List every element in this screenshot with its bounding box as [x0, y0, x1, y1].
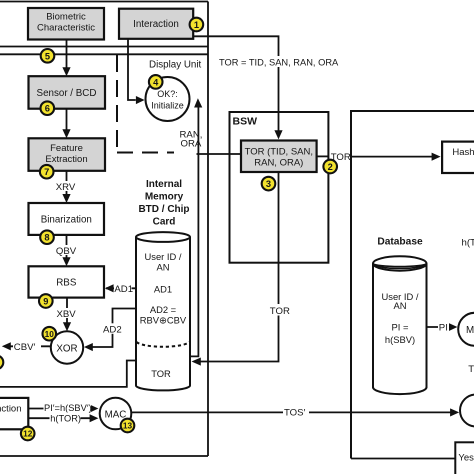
wire: memory cylinder output to left edge (to hash function) — [0, 361, 136, 387]
svg-text:4: 4 — [153, 77, 159, 87]
badge 2 — [323, 160, 337, 174]
wire: Interaction to BSW TOR box — [193, 36, 278, 131]
svg-text:Internal: Internal — [146, 179, 182, 190]
label TOR on vertical wire — [269, 304, 293, 316]
box Binarization — [29, 203, 105, 235]
svg-text:Card: Card — [153, 217, 176, 228]
box TOR (TID, SAN, RAN, ORA) inside BSW — [241, 141, 317, 173]
svg-text:2: 2 — [328, 162, 333, 172]
svg-text:Extraction: Extraction — [45, 154, 87, 165]
box RBS — [29, 266, 105, 297]
wire: outer client container right edge — [207, 2, 209, 457]
svg-text:PI′=h(SBV′): PI′=h(SBV′) — [44, 403, 92, 413]
wire: dashed divider inside memory cylinder — [137, 342, 190, 347]
wire: database lid second arc — [373, 264, 427, 267]
wire: PI'=h(SBV') into MAC — [28, 408, 90, 410]
svg-text:h(SBV): h(SBV) — [385, 334, 415, 345]
badge 9 — [39, 294, 53, 308]
wire: RAN ORA line from BSW up into OK circle — [197, 107, 199, 154]
wire: outer client container bottom edge — [0, 455, 208, 457]
svg-text:M: M — [466, 325, 474, 336]
box Interaction — [119, 9, 193, 39]
svg-text:MAC: MAC — [105, 409, 127, 420]
svg-text:Display Unit: Display Unit — [149, 59, 202, 70]
badge 5 — [41, 49, 55, 63]
node OK?: Initialize circle — [146, 77, 190, 121]
svg-text:RBS: RBS — [56, 277, 77, 288]
svg-text:Biometric: Biometric — [46, 12, 86, 23]
label TOR = TID, SAN, RAN, ORA — [272, 56, 285, 67]
node Display Unit dashed box — [116, 55, 118, 153]
svg-text:AN: AN — [393, 300, 406, 311]
wire: PI from database to M circle — [427, 326, 450, 328]
node comparison circle (cut off at right edge) — [460, 395, 474, 427]
svg-text:AD2 =: AD2 = — [150, 304, 177, 315]
wire: Biometric Characteristic down to Sensor/BCD — [66, 40, 68, 69]
wire: XOR output CBV' to the left edge — [10, 345, 51, 347]
badge 4 — [149, 75, 163, 89]
box Sensor / BCD — [29, 76, 106, 109]
svg-text:User ID /: User ID / — [145, 251, 182, 262]
svg-text:TOR: TOR — [270, 306, 290, 317]
svg-text:QBV: QBV — [56, 246, 77, 257]
box hash function at bottom left (cut off) — [0, 398, 28, 429]
wire: TSP edge to Hash box with arrow — [351, 156, 432, 158]
svg-text:BTD / Chip: BTD / Chip — [138, 204, 189, 215]
svg-text:13: 13 — [123, 421, 133, 431]
svg-text:CBV′: CBV′ — [14, 342, 36, 353]
wire: top border line of outer client container — [0, 1, 208, 3]
badge 7 — [40, 165, 54, 179]
svg-text:7: 7 — [44, 167, 49, 177]
svg-text:10: 10 — [45, 329, 55, 339]
node MAC circle — [100, 398, 132, 430]
badge 12 — [21, 427, 35, 441]
wire: horizontal from TOR box to RAN/ORA junction — [197, 153, 242, 155]
svg-text:BSW: BSW — [233, 116, 258, 128]
svg-text:XOR: XOR — [56, 343, 77, 354]
wire: Interaction down to OK circle — [128, 39, 136, 100]
wire: inner container top line A — [0, 46, 208, 48]
badge 6 — [41, 101, 55, 115]
svg-text:TS: TS — [468, 364, 474, 375]
svg-text:XBV: XBV — [57, 309, 77, 320]
node BSW container — [230, 112, 329, 263]
wire: TOS' line from MAC to comparison circle — [131, 411, 450, 413]
wire: RBS down to XOR, label XBV — [66, 298, 68, 323]
badge 8 — [40, 230, 54, 244]
svg-text:TOS′: TOS′ — [284, 408, 306, 419]
svg-text:Initialize: Initialize — [151, 100, 184, 110]
box Biometric Characteristic — [28, 8, 104, 40]
wire: inner container top line B — [0, 53, 208, 55]
svg-text:Characteristic: Characteristic — [37, 23, 95, 34]
node TSP right container — [351, 111, 474, 459]
svg-text:XRV: XRV — [56, 182, 76, 193]
svg-text:Memory: Memory — [145, 191, 184, 202]
svg-text:Binarization: Binarization — [41, 214, 92, 225]
svg-text:unction: unction — [0, 404, 22, 415]
node M circle (MAC, cut off at right edge) — [458, 313, 474, 346]
svg-text:Database: Database — [377, 236, 423, 247]
svg-text:OK?:: OK?: — [157, 89, 178, 99]
svg-text:Yes: Yes — [458, 452, 474, 463]
svg-text:PI: PI — [439, 322, 448, 333]
wire: TOR box right to BSW edge — [317, 155, 329, 157]
badge 11 (cut off at left edge) — [0, 356, 3, 370]
wire: Sensor/BCD down to Feature Extraction — [66, 109, 68, 130]
svg-text:1: 1 — [194, 20, 199, 30]
svg-text:TOR = TID, SAN, RAN, ORA: TOR = TID, SAN, RAN, ORA — [219, 57, 339, 67]
svg-text:h(TOR): h(TOR) — [50, 413, 81, 423]
svg-text:AD2: AD2 — [103, 324, 122, 335]
svg-text:TOR: TOR — [151, 368, 171, 379]
svg-text:Feature: Feature — [50, 143, 83, 154]
badge 13 — [121, 419, 135, 433]
svg-text:12: 12 — [23, 429, 33, 439]
badge 3 — [262, 177, 276, 191]
svg-text:Sensor / BCD: Sensor / BCD — [37, 88, 97, 99]
wire: right container bottom edge to Yes box — [351, 458, 455, 460]
wire: TOR box down to cylinder TOR section — [201, 172, 279, 362]
svg-text:5: 5 — [45, 51, 50, 61]
wire: AD1 from memory cylinder to RBS — [106, 287, 136, 289]
svg-text:h(TO: h(TO — [462, 238, 474, 249]
svg-text:ORA: ORA — [181, 138, 202, 149]
svg-text:TOR (TID, SAN,: TOR (TID, SAN, — [245, 146, 313, 157]
wire: AD2 from memory cylinder down into XOR — [86, 309, 136, 348]
wire: vertical from junction down into cylinder TOR section — [190, 154, 199, 356]
svg-text:6: 6 — [45, 104, 50, 114]
wire: Feature Extraction down to Binarization, label XRV — [66, 171, 68, 195]
svg-text:9: 9 — [43, 297, 48, 307]
svg-text:3: 3 — [266, 179, 271, 189]
svg-text:AD1: AD1 — [114, 284, 133, 295]
node database cylinder — [373, 264, 427, 395]
svg-text:Hash: Hash — [452, 147, 474, 158]
node memory cylinder BTD/Chip Card — [136, 237, 190, 390]
badge 10 — [43, 327, 57, 341]
wire: h(TOR) into MAC — [28, 417, 90, 419]
box Feature Extraction — [29, 138, 106, 171]
svg-text:Interaction: Interaction — [133, 19, 179, 30]
svg-text:RAN, ORA): RAN, ORA) — [254, 157, 303, 168]
box Yes (cut off at bottom right) — [455, 442, 474, 474]
node XOR circle — [51, 331, 83, 363]
svg-text:8: 8 — [44, 233, 49, 243]
svg-text:PI =: PI = — [392, 321, 409, 332]
svg-text:RBV⊕CBV: RBV⊕CBV — [140, 315, 187, 326]
badge 1 — [190, 18, 204, 32]
wire: Binarization down to RBS, label QBV — [66, 235, 68, 258]
svg-text:AN: AN — [156, 261, 169, 272]
svg-text:AD1: AD1 — [154, 284, 172, 295]
box Hash (cut off at right) — [442, 142, 474, 173]
